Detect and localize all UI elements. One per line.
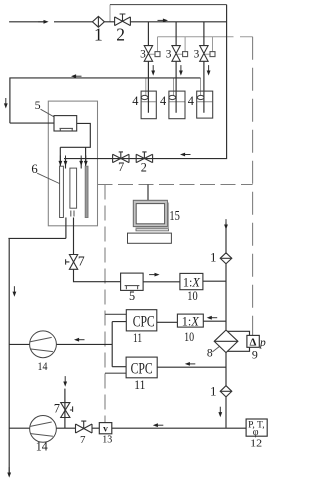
svg-text:CPC: CPC xyxy=(133,313,155,331)
svg-text:13: 13 xyxy=(102,433,112,445)
svg-text:p: p xyxy=(259,337,266,349)
svg-text:14: 14 xyxy=(36,440,49,454)
svg-text:7: 7 xyxy=(80,434,86,446)
svg-text:7: 7 xyxy=(78,254,85,269)
svg-text:7: 7 xyxy=(54,401,60,415)
svg-text:5: 5 xyxy=(129,289,135,303)
svg-text:14: 14 xyxy=(38,361,48,373)
svg-text:3: 3 xyxy=(194,48,200,60)
svg-text:1: 1 xyxy=(210,384,217,399)
svg-text:12: 12 xyxy=(250,437,262,449)
svg-text:10: 10 xyxy=(187,289,197,303)
svg-text:φ: φ xyxy=(253,427,259,438)
svg-text:3: 3 xyxy=(166,48,172,60)
svg-text:15: 15 xyxy=(169,209,180,224)
svg-text:6: 6 xyxy=(31,162,37,176)
svg-text:9: 9 xyxy=(252,347,258,361)
svg-text:11: 11 xyxy=(134,378,145,392)
svg-text:1: 1 xyxy=(94,25,103,45)
svg-text:1:X: 1:X xyxy=(183,274,201,289)
svg-text:1: 1 xyxy=(210,251,216,265)
svg-text:Δ: Δ xyxy=(249,337,256,349)
svg-text:4: 4 xyxy=(132,94,138,108)
svg-text:3: 3 xyxy=(140,48,146,60)
svg-text:1:X: 1:X xyxy=(182,313,200,328)
svg-text:CPC: CPC xyxy=(131,359,153,377)
svg-text:v: v xyxy=(103,425,108,435)
svg-text:2: 2 xyxy=(141,161,147,175)
svg-text:10: 10 xyxy=(184,330,194,344)
svg-text:2: 2 xyxy=(116,25,125,45)
svg-text:8: 8 xyxy=(207,346,213,359)
svg-text:5: 5 xyxy=(35,98,41,112)
svg-text:4: 4 xyxy=(188,94,194,108)
svg-text:4: 4 xyxy=(160,94,166,108)
svg-text:7: 7 xyxy=(118,160,124,174)
svg-text:11: 11 xyxy=(133,331,142,345)
